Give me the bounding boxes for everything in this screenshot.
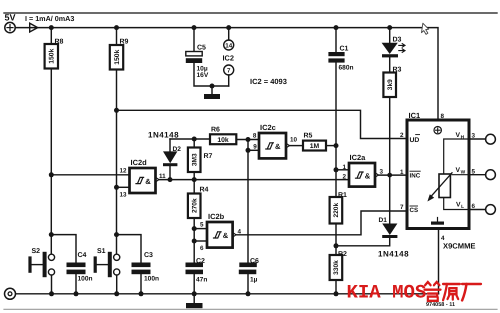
- svg-text:R9: R9: [120, 39, 129, 46]
- svg-text:100n: 100n: [144, 275, 159, 282]
- switch S1 contacts: [114, 254, 120, 260]
- wire D2/R7/R6 node line: [170, 138, 210, 140]
- svg-text:1N4148: 1N4148: [378, 250, 409, 259]
- svg-text:S2: S2: [32, 248, 41, 255]
- IC1 internal pot wiring: [444, 139, 469, 174]
- frame top border: [4, 12, 497, 14]
- wire C5 branch: [193, 28, 195, 52]
- svg-text:3M3: 3M3: [191, 153, 198, 166]
- capacitor C4 100n: [67, 263, 86, 268]
- svg-text:IC2b: IC2b: [208, 212, 225, 221]
- LED D3 branch: [389, 28, 391, 43]
- svg-text:C6: C6: [250, 258, 259, 265]
- svg-text:14: 14: [225, 43, 232, 50]
- svg-text:3k9: 3k9: [387, 79, 394, 90]
- svg-text:INC: INC: [410, 172, 421, 179]
- svg-text:C4: C4: [78, 252, 87, 259]
- svg-text:&: &: [223, 231, 229, 240]
- capacitor C2 47n: [186, 263, 204, 268]
- node S2/C4 tap: [49, 232, 54, 237]
- diode D2 1N4148: [169, 139, 171, 151]
- node pin13 tap: [114, 185, 119, 190]
- svg-text:4: 4: [238, 229, 242, 236]
- wire IC2a output to IC1 INC: [378, 174, 407, 176]
- svg-text:R7: R7: [204, 153, 213, 160]
- resistor R7 3M3: [188, 148, 201, 173]
- svg-text:3: 3: [472, 132, 476, 139]
- svg-text:R8: R8: [55, 39, 64, 46]
- svg-text:1N4148: 1N4148: [148, 131, 179, 140]
- watermark chinese glyphs: [425, 282, 481, 301]
- wire R8 branch vertical: [50, 28, 52, 44]
- ground terminal 0 bottom left: [5, 288, 16, 299]
- svg-text:&: &: [365, 171, 371, 180]
- svg-text:S1: S1: [97, 248, 106, 255]
- node IC2b pin5: [192, 226, 197, 231]
- terminal VL: [469, 209, 486, 211]
- capacitor C5 10u electrolytic: [186, 52, 202, 56]
- svg-text:5V: 5V: [5, 13, 16, 23]
- gate IC2d: [130, 168, 156, 193]
- svg-text:R3: R3: [393, 67, 402, 74]
- resistor R9 150k: [110, 45, 123, 70]
- svg-text:5: 5: [472, 168, 476, 175]
- wire IC2d pin12 to R8 line: [51, 174, 129, 176]
- svg-text:X9CMME: X9CMME: [443, 242, 476, 251]
- svg-text:L: L: [461, 204, 464, 210]
- node R7/R4 junction: [192, 177, 197, 182]
- svg-text:C2: C2: [196, 258, 205, 265]
- watermark KIA MOS: [347, 282, 427, 304]
- gate IC2b: [207, 222, 233, 248]
- svg-text:R1: R1: [338, 192, 347, 199]
- svg-text:I = 1mA/ 0mA3: I = 1mA/ 0mA3: [25, 14, 74, 23]
- svg-text:11: 11: [159, 173, 166, 180]
- IC2 power pin 7: [224, 65, 234, 75]
- svg-text:&: &: [275, 142, 281, 151]
- wire IC1 pin4 ground lead: [438, 229, 440, 294]
- node IC2a pin1 junction: [334, 167, 339, 172]
- capacitor C1 680n: [328, 52, 344, 56]
- svg-text:10k: 10k: [217, 137, 229, 144]
- wire pins 8-9 tie down to C6: [247, 140, 249, 263]
- wire R9 branch vertical: [116, 28, 118, 45]
- svg-text:7: 7: [227, 68, 231, 75]
- svg-text:5: 5: [200, 222, 204, 229]
- gate IC2a: [349, 163, 375, 187]
- svg-text:270k: 270k: [191, 198, 198, 213]
- wire IC2d pin13 to R9 line: [117, 186, 130, 188]
- gate IC2c: [259, 133, 286, 158]
- IC1 wiper arrow: [431, 173, 452, 197]
- svg-text:974058 - 11: 974058 - 11: [426, 302, 455, 308]
- svg-text:D1: D1: [379, 217, 388, 224]
- LED D3: [382, 43, 398, 54]
- node R8 top rail junction: [49, 25, 54, 30]
- wire jog to C3: [117, 235, 142, 263]
- svg-text:220k: 220k: [333, 203, 340, 218]
- IC1 internal gnd mark: [437, 218, 439, 222]
- svg-text:IC2 = 4093: IC2 = 4093: [250, 77, 287, 86]
- svg-text:2: 2: [343, 174, 347, 181]
- wire IC2d output long line to IC2a pin2: [159, 179, 349, 181]
- wire 5V top rail: [15, 28, 438, 120]
- node D1 return junction: [334, 243, 339, 248]
- IC1 X9CMME box: [407, 120, 469, 229]
- resistor R2 330k: [330, 255, 343, 280]
- svg-text:1: 1: [343, 164, 347, 171]
- svg-text:D3: D3: [393, 37, 402, 44]
- terminal VW: [469, 174, 486, 176]
- wire ground bottom rail: [16, 293, 439, 295]
- svg-text:100n: 100n: [78, 275, 93, 282]
- mouse cursor: [419, 22, 429, 35]
- svg-text:10: 10: [290, 137, 298, 144]
- svg-text:W: W: [461, 170, 466, 176]
- wire IC2c out to R5: [289, 145, 303, 147]
- svg-text:8: 8: [253, 133, 257, 140]
- wire R3 down to INC node: [389, 97, 391, 175]
- ground symbol below rail: [193, 294, 195, 303]
- svg-text:C5: C5: [197, 45, 206, 52]
- svg-text:12: 12: [120, 168, 128, 175]
- IC1 potentiometer rect: [439, 174, 450, 198]
- svg-text:R4: R4: [200, 187, 209, 194]
- node U/D tap on R9 line: [114, 108, 119, 113]
- svg-text:KIA MOS: KIA MOS: [347, 282, 427, 304]
- frame bottom border: [4, 308, 497, 310]
- svg-text:IC2: IC2: [223, 53, 235, 62]
- supply terminal +5V: [5, 22, 15, 32]
- wire C1/R1/R2 main vertical: [335, 28, 337, 52]
- capacitor C6 1u: [239, 263, 256, 268]
- svg-text:680n: 680n: [339, 65, 354, 72]
- svg-text:13: 13: [120, 192, 128, 199]
- wire S1 bottom to rail: [116, 275, 118, 294]
- wire U/D path from R9 node to IC1 pin2: [117, 110, 408, 138]
- svg-text:1µ: 1µ: [250, 276, 258, 283]
- current direction buffer arrow: [30, 23, 38, 32]
- IC1 plus symbol: [434, 127, 441, 134]
- svg-text:8: 8: [441, 113, 445, 120]
- svg-text:D2: D2: [173, 146, 182, 153]
- svg-text:1: 1: [400, 169, 404, 176]
- wire jog to C4: [51, 235, 76, 263]
- svg-text:3: 3: [380, 169, 384, 176]
- IC2 power pin 14: [228, 28, 230, 40]
- svg-text:150k: 150k: [114, 49, 121, 64]
- wire IC2a pin1 lead: [336, 169, 349, 171]
- resistor R5 1M: [303, 141, 326, 151]
- wire IC2b output to CS pin: [236, 211, 407, 235]
- switch S2 contacts: [48, 254, 54, 260]
- svg-text:UD: UD: [410, 137, 420, 144]
- wire INC node down to D1: [389, 175, 391, 223]
- svg-text:16V: 16V: [197, 72, 209, 79]
- svg-text:H: H: [461, 135, 465, 141]
- svg-text:R5: R5: [304, 133, 313, 140]
- svg-text:IC2d: IC2d: [131, 158, 148, 167]
- resistor R1 220k: [330, 197, 343, 224]
- svg-text:150k: 150k: [49, 48, 56, 63]
- svg-text:47n: 47n: [196, 276, 207, 283]
- capacitor C3 100n: [132, 263, 151, 268]
- svg-text:7: 7: [400, 204, 404, 211]
- resistor R8 150k: [45, 44, 58, 69]
- resistor R6 10k: [210, 134, 236, 144]
- node R5 output junction: [334, 143, 339, 148]
- wire S2 bottom to rail: [51, 275, 53, 294]
- node D2 cathode junction: [168, 177, 173, 182]
- resistor R4 270k: [188, 194, 201, 219]
- node IC2c pin8 junction: [246, 137, 251, 142]
- svg-text:C3: C3: [144, 252, 153, 259]
- svg-text:R2: R2: [338, 251, 347, 258]
- svg-text:6: 6: [200, 245, 204, 252]
- svg-text:1M: 1M: [310, 143, 320, 150]
- node S1/C3 tap: [114, 232, 119, 237]
- ground symbol under C5: [211, 86, 213, 94]
- svg-text:6: 6: [472, 203, 476, 210]
- svg-text:C1: C1: [340, 46, 349, 53]
- svg-text:330k: 330k: [333, 260, 340, 275]
- svg-text:9: 9: [253, 144, 257, 151]
- svg-text:IC1: IC1: [409, 111, 421, 120]
- node INC/D1/R3 junction: [387, 173, 392, 178]
- node IC2b pin6: [192, 239, 197, 244]
- resistor R3 3k9: [383, 73, 396, 98]
- terminal VH: [469, 138, 486, 140]
- svg-text:R6: R6: [211, 127, 220, 134]
- svg-text:IC2a: IC2a: [350, 153, 367, 162]
- diode D1 1N4148: [382, 224, 397, 236]
- svg-text:2: 2: [400, 132, 404, 139]
- svg-text:IC2c: IC2c: [260, 123, 276, 132]
- svg-text:&: &: [145, 177, 151, 186]
- node pin12 tap on R8 line: [49, 172, 54, 177]
- svg-text:CS: CS: [410, 207, 419, 214]
